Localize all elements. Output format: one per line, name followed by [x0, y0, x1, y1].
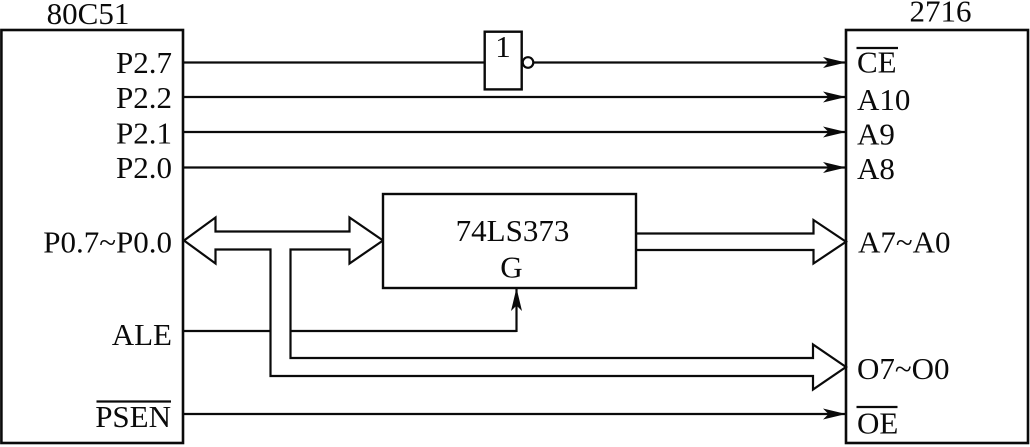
svg-text:P2.1: P2.1	[116, 116, 172, 151]
bus P0.7~P0.0 double arrow + branch down to O7~O0 arrow (hollow)	[184, 218, 846, 390]
svg-text:P2.2: P2.2	[116, 80, 172, 115]
svg-text:74LS373: 74LS373	[456, 213, 570, 248]
wire ALE to latch G input	[183, 289, 517, 332]
wire P2.1 to A9	[183, 131, 845, 133]
wire P2.0 to A8	[183, 166, 845, 168]
arrowhead into A8	[823, 162, 846, 173]
chip 2716 box	[846, 30, 1028, 443]
pin label OE with overline	[857, 406, 899, 441]
bus 74LS373 to A7~A0 (hollow arrow)	[636, 220, 846, 264]
inverter bubble	[523, 57, 534, 68]
svg-text:P0.7~P0.0: P0.7~P0.0	[43, 224, 172, 259]
wire PSEN to OE	[183, 413, 845, 415]
chip 80C51 box	[1, 30, 183, 443]
svg-text:P2.7: P2.7	[116, 45, 172, 80]
wire P2.7 (80C51 P2.7 to inverter to 2716 CE)	[183, 61, 845, 63]
arrowhead into A10	[823, 92, 846, 103]
svg-text:O7~O0: O7~O0	[857, 351, 950, 386]
arrowhead into CE	[823, 57, 846, 68]
svg-text:G: G	[500, 250, 522, 285]
svg-text:ALE: ALE	[112, 317, 172, 352]
svg-text:CE: CE	[857, 45, 897, 80]
svg-text:P2.0: P2.0	[116, 150, 172, 185]
svg-text:A7~A0: A7~A0	[858, 224, 951, 259]
svg-text:A8: A8	[857, 151, 895, 186]
svg-text:A10: A10	[857, 82, 910, 117]
svg-text:A9: A9	[857, 117, 895, 152]
pin label PSEN with overline	[95, 399, 171, 434]
wire P2.2 to A10	[183, 96, 845, 98]
arrowhead into OE	[823, 409, 846, 420]
arrowhead up into G	[511, 288, 522, 311]
pin label CE with overline	[857, 45, 899, 80]
svg-text:80C51: 80C51	[47, 0, 130, 31]
arrowhead into A9	[823, 127, 846, 138]
svg-text:2716: 2716	[910, 0, 972, 29]
svg-text:1: 1	[495, 29, 511, 64]
inverter U1 (logic 1 box)	[485, 32, 522, 90]
svg-text:OE: OE	[857, 406, 898, 441]
latch 74LS373 box	[383, 194, 636, 288]
svg-text:PSEN: PSEN	[95, 399, 171, 434]
